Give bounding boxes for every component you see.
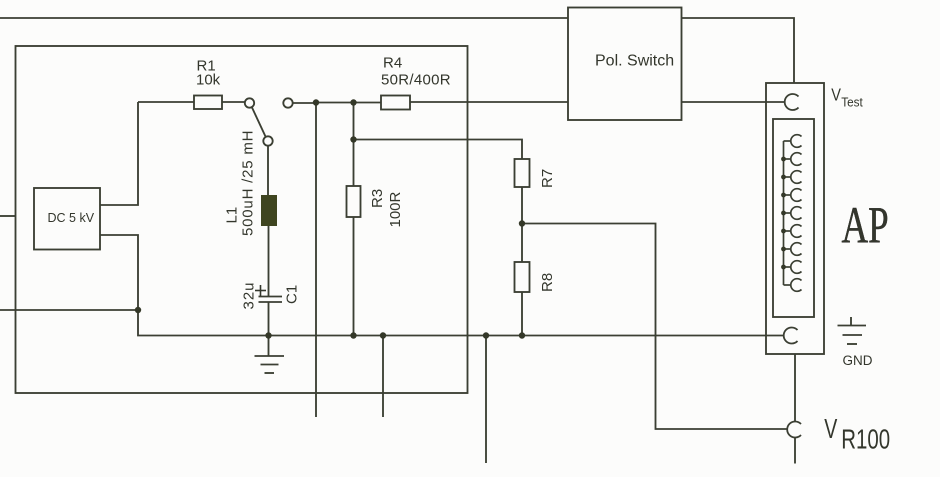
svg-text:GND: GND [843,353,873,368]
svg-text:R4: R4 [383,55,402,72]
svg-text:V: V [824,414,837,445]
svg-text:L1: L1 [224,207,241,224]
svg-text:R3: R3 [369,189,386,208]
svg-text:R100: R100 [841,425,890,456]
svg-text:DC 5 kV: DC 5 kV [48,211,95,225]
svg-text:32u: 32u [241,281,258,309]
svg-text:R8: R8 [539,273,556,292]
svg-text:V: V [831,85,841,105]
svg-text:Test: Test [841,95,863,109]
svg-text:Pol. Switch: Pol. Switch [595,53,674,70]
svg-text:100R: 100R [387,191,404,227]
svg-text:500uH /25 mH: 500uH /25 mH [240,130,257,236]
svg-text:C1: C1 [284,285,301,304]
svg-text:AP: AP [842,196,889,254]
svg-text:50R/400R: 50R/400R [381,72,451,89]
svg-text:R7: R7 [539,169,556,188]
svg-text:10k: 10k [196,72,221,89]
